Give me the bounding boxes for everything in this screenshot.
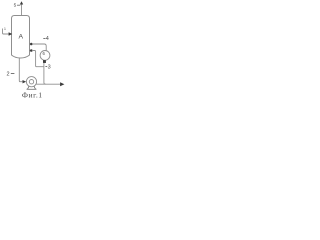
svg-text:Фиг.1: Фиг.1	[22, 90, 43, 99]
svg-text:2: 2	[7, 71, 10, 77]
svg-text:5: 5	[14, 3, 17, 9]
svg-text:3: 3	[48, 64, 51, 70]
svg-text:A: A	[19, 34, 24, 41]
svg-text:4: 4	[46, 36, 49, 42]
svg-text:1: 1	[4, 27, 6, 31]
